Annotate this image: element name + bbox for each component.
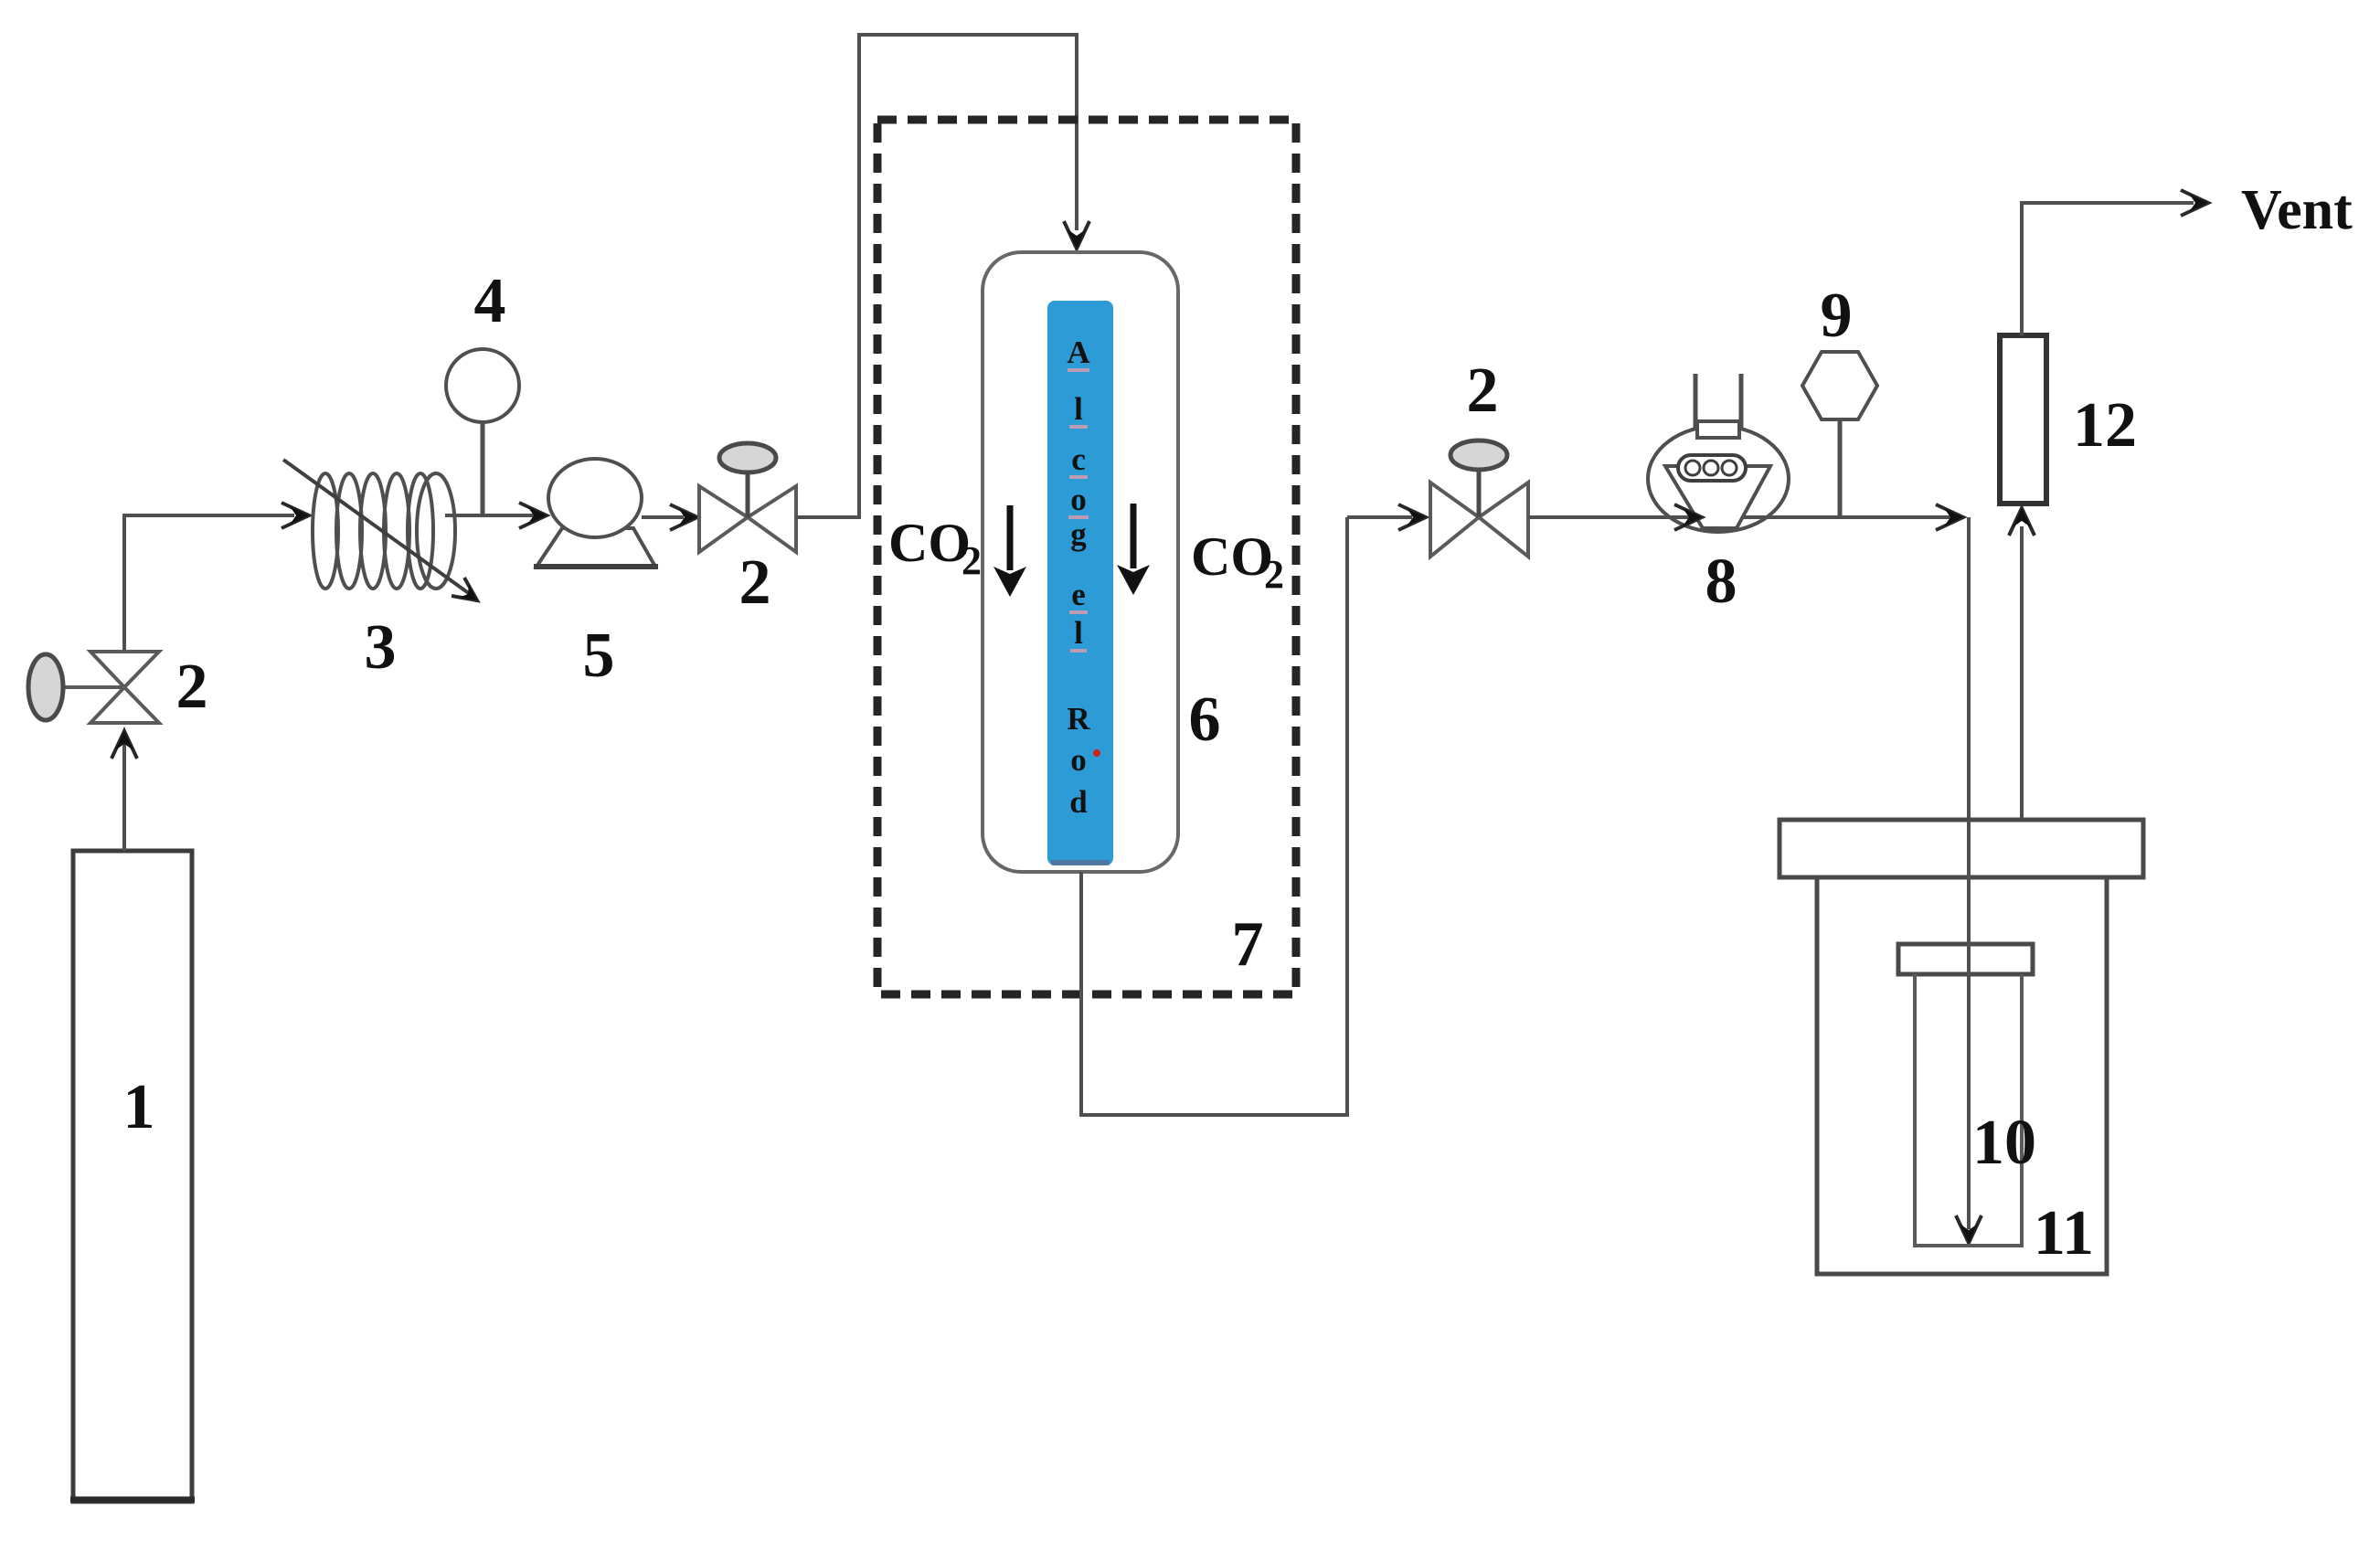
pipe: cylinder to valve 2a <box>112 731 137 851</box>
pipe: down into cold trap 10 <box>1956 517 1982 1243</box>
valve 2a <box>28 652 159 723</box>
gas cylinder 1 <box>70 851 195 1502</box>
red speck near Rod o <box>1093 749 1100 757</box>
valve 2b <box>699 443 796 552</box>
alcogel rod (blue) <box>1047 301 1113 865</box>
pipe: coil 3 to pump 5 <box>445 503 547 528</box>
collection tube cap <box>1898 944 2033 974</box>
svg-text:12: 12 <box>2073 390 2137 461</box>
svg-text:o: o <box>1070 742 1087 778</box>
svg-text:2: 2 <box>1264 552 1284 597</box>
svg-text:11: 11 <box>2034 1198 2094 1268</box>
alcogel rod vertical label <box>1067 334 1090 820</box>
spellcheck marks on rod text <box>1068 368 1089 653</box>
svg-text:d: d <box>1069 784 1088 820</box>
svg-text:2: 2 <box>1467 356 1499 426</box>
collection tube 10 <box>1915 974 2022 1246</box>
pipe: valve 2b up and over into vessel 6 <box>796 35 1089 517</box>
rotameter 12 <box>2000 335 2046 504</box>
svg-text:6: 6 <box>1189 684 1221 755</box>
svg-text:2: 2 <box>739 547 771 618</box>
svg-text:7: 7 <box>1232 909 1264 980</box>
pump 5 <box>534 459 658 567</box>
svg-text:4: 4 <box>474 266 506 336</box>
extraction vessel 6 <box>983 252 1178 872</box>
svg-text:8: 8 <box>1705 547 1737 617</box>
junction arrow at end of pipe <box>1936 504 1963 530</box>
pipe: vessel 6 bottom loop to riser <box>1081 517 1347 1115</box>
dewar lid <box>1780 820 2143 877</box>
svg-text:c: c <box>1071 441 1086 477</box>
wet gas meter 8 <box>1648 374 1789 532</box>
dark smudge at rod bottom <box>1051 860 1110 865</box>
svg-text:e: e <box>1071 577 1086 612</box>
pipe: valve 2c through meter 8 to junction <box>1528 515 1963 519</box>
svg-text:5: 5 <box>583 621 615 691</box>
CO2 flow arrow left <box>993 505 1026 597</box>
rupture disc 9 (hexagon) <box>1802 352 1877 517</box>
pressure gauge 4 <box>446 349 519 517</box>
svg-text:Vent: Vent <box>2241 179 2353 241</box>
svg-text:3: 3 <box>365 612 397 683</box>
svg-text:A: A <box>1067 334 1090 370</box>
pipe: up into rotameter 12 <box>2009 508 2035 820</box>
pipe: valve 2a to coil 3 <box>124 503 309 652</box>
CO2 flow arrow right <box>1117 504 1150 595</box>
dewar body 11 <box>1817 877 2107 1274</box>
svg-text:2: 2 <box>962 538 982 583</box>
cooling coil 3 <box>283 460 477 600</box>
svg-text:l: l <box>1074 391 1083 427</box>
oven dashed box 7 <box>877 120 1296 994</box>
svg-text:o: o <box>1070 482 1087 517</box>
svg-text:1: 1 <box>123 1072 155 1142</box>
svg-text:g: g <box>1070 516 1087 552</box>
pipe: through lid into tube (redraw over lid) <box>1967 820 1971 1229</box>
valve 2c <box>1430 440 1528 557</box>
CO2 label right <box>1191 526 1284 597</box>
CO2 label left <box>888 513 982 583</box>
svg-text:CO: CO <box>1191 526 1273 587</box>
svg-text:10: 10 <box>1972 1108 2036 1178</box>
svg-text:R: R <box>1067 701 1090 737</box>
svg-text:l: l <box>1074 615 1083 651</box>
svg-text:2: 2 <box>176 652 208 722</box>
svg-text:CO: CO <box>888 513 971 573</box>
pipe: riser to valve 2c with arrow <box>1347 504 1426 530</box>
pipe: pump 5 to valve 2b <box>642 504 697 530</box>
vent line <box>2022 190 2208 335</box>
svg-text:9: 9 <box>1821 281 1853 351</box>
